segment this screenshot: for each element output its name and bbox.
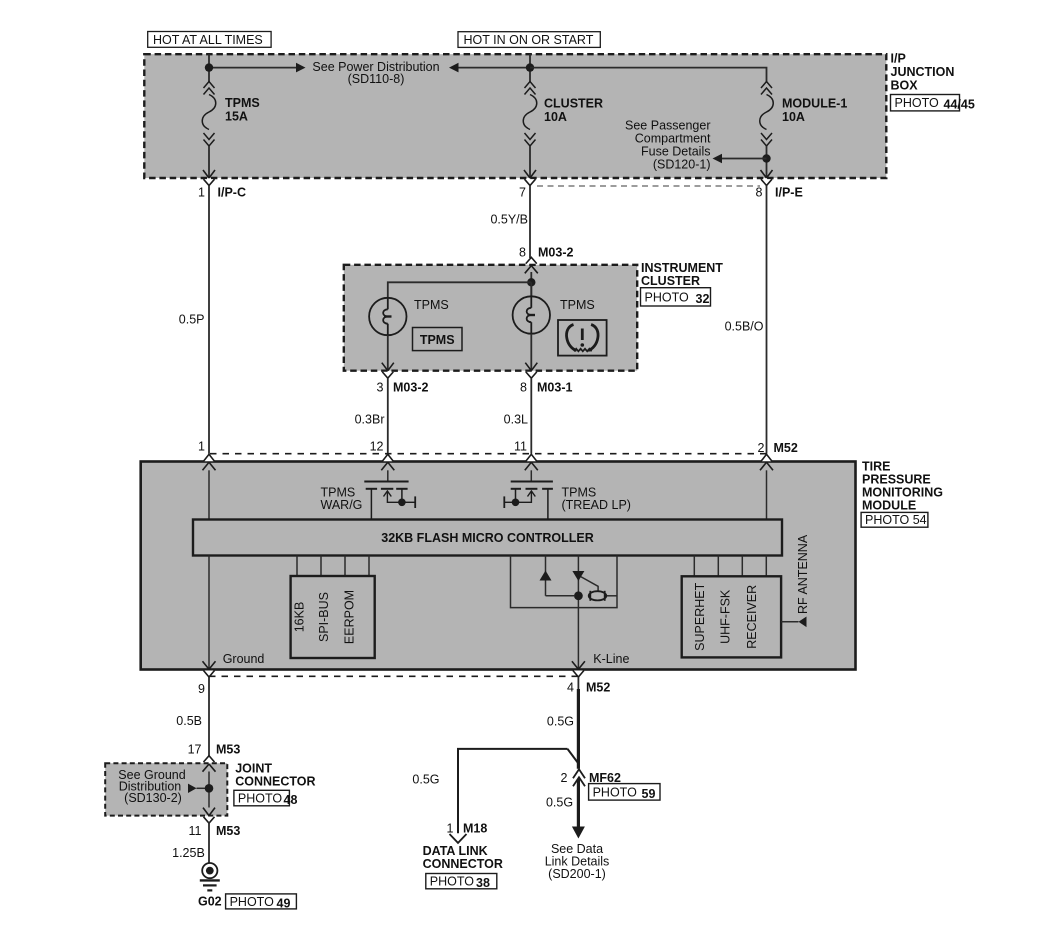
fuse TPMS 15A xyxy=(202,82,216,147)
svg-text:SPI-BUS: SPI-BUS xyxy=(317,592,331,642)
svg-text:PHOTO: PHOTO xyxy=(895,96,939,110)
icon TPMS warning (tire with !) xyxy=(558,320,607,356)
svg-text:CONNECTOR: CONNECTOR xyxy=(235,775,315,789)
svg-text:TIRE: TIRE xyxy=(862,460,890,474)
connector pin 8 M03-1 xyxy=(525,363,537,379)
wire left lamp to pin 3 xyxy=(387,335,389,371)
svg-text:0.5Y/B: 0.5Y/B xyxy=(490,212,528,226)
memory box 16KB SPI-BUS EERPOM xyxy=(291,576,375,658)
wire MCU to receiver stub 2 xyxy=(717,556,719,577)
svg-text:EERPOM: EERPOM xyxy=(343,590,357,644)
label PHOTO 48 xyxy=(234,790,290,806)
connector pin 17 M53 entry xyxy=(203,756,216,772)
micro controller U1 xyxy=(193,520,782,556)
svg-text:1: 1 xyxy=(198,186,205,200)
label PHOTO 59 xyxy=(589,784,660,801)
svg-text:JOINT: JOINT xyxy=(235,762,272,776)
svg-text:M52: M52 xyxy=(586,681,610,695)
svg-text:3: 3 xyxy=(377,381,384,395)
svg-text:2: 2 xyxy=(561,771,568,785)
node K-line junction xyxy=(574,591,583,600)
svg-text:7: 7 xyxy=(519,186,526,200)
wire pin1 to MCU xyxy=(208,470,210,519)
I/P junction box xyxy=(144,54,886,178)
wire pin12 to Q1 gate xyxy=(387,470,389,480)
module connector boundary M52 bottom (dashed) xyxy=(209,675,578,677)
connector module pin 9 exit xyxy=(203,661,216,677)
wire hot-at-all-times feed xyxy=(208,54,210,81)
wire MCU to memory stub 3 xyxy=(344,556,346,577)
svg-text:0.5G: 0.5G xyxy=(547,715,574,729)
label JOINT CONNECTOR xyxy=(235,762,315,789)
svg-text:(SD120-1): (SD120-1) xyxy=(653,158,711,172)
svg-text:Fuse Details: Fuse Details xyxy=(641,145,710,159)
svg-text:INSTRUMENT: INSTRUMENT xyxy=(641,261,723,275)
svg-text:48: 48 xyxy=(284,793,298,807)
svg-text:CLUSTER: CLUSTER xyxy=(641,274,700,288)
label HOT IN ON OR START xyxy=(458,32,600,48)
connector pin 7 xyxy=(524,170,536,186)
node junction MODULE-1 below fuse xyxy=(762,154,770,162)
svg-text:0.5G: 0.5G xyxy=(412,773,439,787)
wire 0.5B/O (pin 8 to module pin 2) xyxy=(766,186,768,454)
wire CLUSTER fuse to pin 7 xyxy=(529,146,531,178)
connector pin 3 M03-2 xyxy=(382,363,394,379)
svg-text:CLUSTER: CLUSTER xyxy=(544,97,603,111)
svg-text:HOT IN ON OR START: HOT IN ON OR START xyxy=(464,33,594,47)
connector module pin 2 xyxy=(760,454,773,470)
svg-text:8: 8 xyxy=(519,246,526,260)
connector module pin 12 xyxy=(381,454,394,470)
svg-text:Compartment: Compartment xyxy=(635,132,711,146)
svg-text:MODULE: MODULE xyxy=(862,499,916,513)
svg-text:WAR/G: WAR/G xyxy=(321,498,363,512)
svg-text:32: 32 xyxy=(696,292,710,306)
wire MCU to receiver stub 1 xyxy=(693,556,695,577)
label box TPMS xyxy=(413,328,463,351)
TPMS module box xyxy=(141,462,856,670)
wire to right lamp xyxy=(530,282,532,296)
svg-text:15A: 15A xyxy=(225,110,248,124)
svg-text:1: 1 xyxy=(198,440,205,454)
svg-text:CONNECTOR: CONNECTOR xyxy=(423,857,503,871)
svg-text:10A: 10A xyxy=(544,110,567,124)
connector boundary (gray dashed) xyxy=(537,185,760,187)
node joint connector xyxy=(205,784,214,793)
wire MODULE-1 fuse to pin 8 xyxy=(766,146,768,178)
wire 1.25B xyxy=(208,822,210,863)
svg-text:TPMS: TPMS xyxy=(225,96,260,110)
svg-text:32KB FLASH MICRO CONTROLLER: 32KB FLASH MICRO CONTROLLER xyxy=(381,531,594,545)
svg-text:See Passenger: See Passenger xyxy=(625,119,710,133)
svg-text:(SD130-2): (SD130-2) xyxy=(124,791,182,805)
node junction TPMS feed xyxy=(205,63,213,71)
svg-text:I/P-E: I/P-E xyxy=(775,186,803,200)
note See Data Link Details xyxy=(545,842,610,881)
connector module pin 4 exit xyxy=(572,661,585,677)
svg-text:SUPERHET: SUPERHET xyxy=(693,582,707,650)
svg-text:MODULE-1: MODULE-1 xyxy=(782,97,847,111)
wire to left lamp xyxy=(388,282,532,298)
wire 0.5G below MF62 xyxy=(577,779,580,827)
svg-text:0.3Br: 0.3Br xyxy=(355,412,385,426)
wire 0.5P (I/P-C to module pin 1) xyxy=(208,186,210,454)
svg-text:I/P: I/P xyxy=(891,52,906,66)
svg-text:16KB: 16KB xyxy=(293,602,307,633)
label PHOTO 44/45 xyxy=(891,95,960,111)
svg-text:4: 4 xyxy=(567,681,574,695)
wire 0.3L xyxy=(530,378,532,454)
svg-text:HOT AT ALL TIMES: HOT AT ALL TIMES xyxy=(153,33,263,47)
wire 0.5Y/B (pin 7 to cluster) xyxy=(529,186,531,259)
wire Ground inside module xyxy=(208,556,210,670)
svg-text:0.3L: 0.3L xyxy=(504,412,528,426)
svg-text:JUNCTION: JUNCTION xyxy=(891,65,955,79)
svg-text:TPMS: TPMS xyxy=(414,298,449,312)
diode arrow down (K-line transmit) xyxy=(572,571,584,581)
wire joint connector internal xyxy=(208,772,210,808)
wire cluster feed xyxy=(530,272,532,296)
svg-text:M53: M53 xyxy=(216,743,240,757)
svg-text:K-Line: K-Line xyxy=(593,652,629,666)
svg-text:M52: M52 xyxy=(774,441,798,455)
instrument cluster box xyxy=(344,265,637,371)
svg-text:59: 59 xyxy=(642,787,656,801)
svg-text:G02: G02 xyxy=(198,894,222,908)
connector pin 8 I/P-E xyxy=(761,170,773,186)
wire TPMS fuse to pin 1 xyxy=(208,146,210,178)
ground G02 xyxy=(200,863,220,890)
wire cluster junction to MODULE-1 fuse xyxy=(530,68,767,82)
svg-text:PHOTO: PHOTO xyxy=(430,875,474,889)
wire 0.5G (K-line) xyxy=(577,677,579,690)
svg-text:11: 11 xyxy=(189,824,202,838)
svg-text:9: 9 xyxy=(198,682,205,696)
RF antenna xyxy=(781,621,798,623)
note See Passenger Compartment Fuse Details xyxy=(625,119,711,172)
svg-text:M03-1: M03-1 xyxy=(537,381,572,395)
svg-text:12: 12 xyxy=(370,440,384,454)
svg-text:1: 1 xyxy=(447,822,454,836)
svg-text:PHOTO: PHOTO xyxy=(645,290,689,304)
svg-text:UHF-FSK: UHF-FSK xyxy=(719,589,733,644)
svg-text:PHOTO: PHOTO xyxy=(593,785,637,799)
wire to See Power Distribution (left) xyxy=(209,67,296,69)
svg-text:11: 11 xyxy=(514,440,527,454)
svg-text:RECEIVER: RECEIVER xyxy=(745,585,759,649)
svg-text:1.25B: 1.25B xyxy=(172,846,205,860)
svg-text:Ground: Ground xyxy=(223,652,265,666)
lamp TPMS (tread lamp) xyxy=(513,296,550,333)
svg-text:PHOTO 54: PHOTO 54 xyxy=(865,513,927,527)
svg-text:0.5B: 0.5B xyxy=(176,714,202,728)
diode arrow up (K-line receive) xyxy=(540,571,552,581)
arrow to data link details xyxy=(572,827,585,839)
connector pin 1 I/P-C xyxy=(203,170,215,186)
wire to See Power Distribution (right) xyxy=(459,67,531,69)
svg-text:(SD110-8): (SD110-8) xyxy=(348,72,405,86)
svg-text:M03-2: M03-2 xyxy=(538,246,573,260)
svg-text:TPMS: TPMS xyxy=(560,298,595,312)
label PHOTO 54 xyxy=(861,512,928,527)
label DATA LINK CONNECTOR xyxy=(423,844,503,871)
connector 2 MF62 xyxy=(573,769,585,786)
wire MCU to memory stub 4 xyxy=(368,556,370,577)
svg-text:MONITORING: MONITORING xyxy=(862,486,943,500)
svg-text:PHOTO: PHOTO xyxy=(238,792,282,806)
connector module pin 11 xyxy=(525,454,538,470)
wire hot-in-on-or-start feed xyxy=(529,54,531,81)
fuse MODULE-1 10A xyxy=(760,82,774,147)
label INSTRUMENT CLUSTER xyxy=(641,261,723,288)
label PHOTO 38 xyxy=(426,874,497,889)
wire right lamp to pin 8 xyxy=(530,334,532,371)
svg-text:44/45: 44/45 xyxy=(944,98,975,112)
element pulse resistor xyxy=(589,591,607,601)
receiver box SUPERHET UHF-FSK RECEIVER xyxy=(682,576,781,657)
note See Ground Distribution xyxy=(118,768,185,805)
svg-text:M18: M18 xyxy=(463,822,487,836)
svg-text:2: 2 xyxy=(758,441,765,455)
label PHOTO 32 xyxy=(641,288,711,306)
svg-text:TPMS: TPMS xyxy=(420,333,455,347)
wire branch to data link connector xyxy=(458,749,568,833)
svg-text:10A: 10A xyxy=(782,110,805,124)
connector module pin 1 xyxy=(203,454,216,470)
wire MCU to receiver stub 3 xyxy=(741,556,743,577)
wire arrow to ground node xyxy=(188,784,197,793)
wire MCU to memory stub 1 xyxy=(296,556,298,577)
wire MCU to receiver stub 4 xyxy=(765,556,767,577)
svg-text:0.5P: 0.5P xyxy=(179,313,205,327)
wire to See Passenger Compartment Fuse Details xyxy=(722,158,767,160)
joint connector box xyxy=(105,763,227,815)
svg-text:PRESSURE: PRESSURE xyxy=(862,473,931,487)
wire 0.5B xyxy=(208,677,210,756)
svg-text:RF ANTENNA: RF ANTENNA xyxy=(796,534,810,614)
svg-text:M53: M53 xyxy=(216,824,240,838)
svg-text:0.5G: 0.5G xyxy=(546,796,573,810)
lamp TPMS (warning lamp) xyxy=(369,298,406,335)
svg-text:8: 8 xyxy=(520,381,527,395)
svg-text:DATA LINK: DATA LINK xyxy=(423,844,488,858)
label PHOTO 49 xyxy=(226,894,297,909)
svg-text:(TREAD LP): (TREAD LP) xyxy=(562,498,631,512)
svg-text:38: 38 xyxy=(476,876,490,890)
label TIRE PRESSURE MONITORING MODULE xyxy=(862,460,943,513)
node junction CLUSTER feed xyxy=(526,63,534,71)
svg-text:BOX: BOX xyxy=(891,79,919,93)
svg-text:(SD200-1): (SD200-1) xyxy=(548,867,606,881)
wire pin11 to Q2 gate xyxy=(530,470,532,480)
svg-text:PHOTO: PHOTO xyxy=(230,895,274,909)
svg-text:17: 17 xyxy=(188,743,202,757)
wire 0.3Br xyxy=(387,378,389,454)
svg-text:I/P-C: I/P-C xyxy=(218,186,246,200)
K-line driver wiring xyxy=(511,556,618,670)
label HOT AT ALL TIMES xyxy=(148,32,271,48)
svg-text:M03-2: M03-2 xyxy=(393,381,428,395)
connector 1 M18 xyxy=(450,834,467,843)
svg-text:49: 49 xyxy=(277,896,291,910)
wire pin2 to MCU xyxy=(766,470,768,519)
transistor Q2 TPMS (TREAD LP) xyxy=(504,482,553,520)
transistor Q1 TPMS WAR/G xyxy=(364,482,415,520)
wire MCU to memory stub 2 xyxy=(320,556,322,577)
fuse CLUSTER 10A xyxy=(523,82,537,147)
label I/P JUNCTION BOX xyxy=(891,52,955,93)
svg-text:8: 8 xyxy=(756,186,763,200)
node lamp feed junction xyxy=(527,278,535,286)
TPMS module connector boundary M52 (dashed) xyxy=(210,453,767,455)
svg-text:0.5B/O: 0.5B/O xyxy=(725,320,764,334)
connector pin 11 M53 exit xyxy=(203,808,215,824)
connector pin 8 M03-2 cluster entry xyxy=(525,257,538,273)
